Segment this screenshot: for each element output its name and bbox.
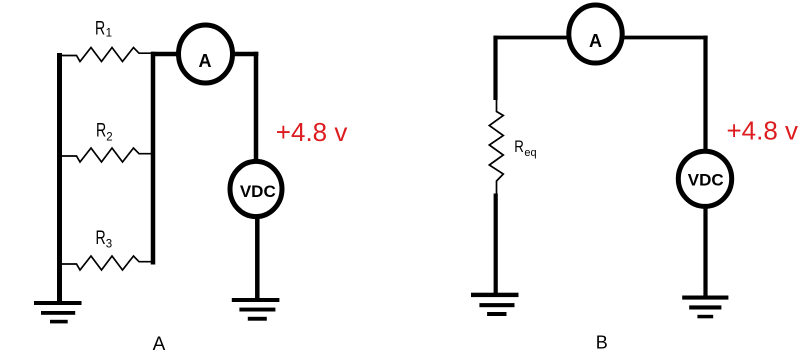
svg-text:3: 3: [106, 239, 112, 251]
wire: circuit B ammeter to top right corner: [616, 36, 708, 40]
svg-text:eq: eq: [524, 147, 536, 159]
resistor R3: [62, 256, 151, 270]
wire: circuit B right drop to VDC: [703, 36, 707, 153]
wire: circuit B VDC to ground: [703, 205, 707, 296]
wire: circuit A right bus: [151, 52, 156, 265]
label R2: [96, 120, 113, 143]
svg-text:R: R: [514, 137, 524, 156]
ground (circuit B, under Req): [471, 293, 519, 316]
svg-text:A: A: [199, 51, 212, 71]
resistor R2: [62, 148, 151, 162]
svg-text:+4.8 v: +4.8 v: [727, 116, 799, 146]
resistor Req: [489, 100, 503, 194]
resistor R1: [62, 48, 151, 62]
voltage source VDC (circuit B): [678, 151, 731, 206]
svg-text:+4.8 v: +4.8 v: [276, 117, 348, 147]
svg-text:B: B: [596, 333, 608, 353]
wire: circuit B top left corner to ammeter: [494, 36, 576, 40]
svg-text:A: A: [589, 31, 602, 51]
ground (circuit A, under VDC): [232, 298, 280, 321]
ammeter A1 (circuit A): [179, 25, 233, 83]
label Req: [514, 137, 536, 159]
wire: circuit A ammeter to corner: [226, 52, 258, 57]
voltage source VDC (circuit A): [230, 161, 282, 216]
ammeter A2 (circuit B): [569, 5, 622, 63]
svg-text:VDC: VDC: [240, 182, 276, 201]
svg-text:VDC: VDC: [688, 171, 724, 190]
wire: circuit B Req to ground: [494, 194, 498, 294]
ground (circuit B, under VDC): [682, 296, 728, 319]
svg-text:2: 2: [106, 131, 112, 143]
label R1: [95, 18, 112, 39]
svg-text:R: R: [96, 120, 106, 141]
svg-text:R: R: [95, 18, 105, 39]
svg-text:R: R: [96, 228, 106, 249]
svg-text:A: A: [153, 334, 166, 355]
wire: circuit A bus to ammeter: [151, 52, 186, 57]
wire: circuit B left drop to Req: [493, 36, 497, 100]
label R3: [96, 228, 113, 251]
wire: circuit A left bus: [57, 53, 62, 302]
wire: circuit A VDC to ground: [255, 213, 260, 299]
wire: circuit A corner down to VDC: [254, 52, 259, 166]
ground (circuit A, left bus): [34, 301, 82, 323]
svg-text:1: 1: [106, 28, 112, 40]
